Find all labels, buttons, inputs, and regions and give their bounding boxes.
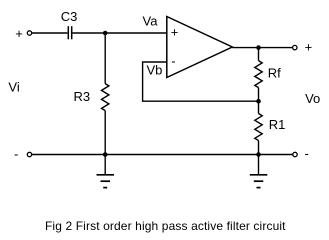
svg-text:R1: R1 <box>269 117 286 132</box>
op-amp U1 <box>167 17 233 78</box>
svg-text:Rf: Rf <box>268 66 281 81</box>
wire output <box>232 47 292 49</box>
svg-text:+: + <box>15 26 23 41</box>
wire top rail left of C3 <box>32 32 68 34</box>
svg-text:R3: R3 <box>74 89 91 104</box>
svg-text:-: - <box>171 53 175 68</box>
wire node to R1 <box>258 101 260 113</box>
wire R3 to bottom rail <box>104 111 106 155</box>
wire Rf to node Vb junction <box>258 88 260 102</box>
svg-text:+: + <box>305 40 313 55</box>
svg-text:Fig 2 First order high pass ac: Fig 2 First order high pass active filte… <box>45 219 286 233</box>
resistor R3 <box>102 84 109 111</box>
node output junction dot <box>256 45 261 50</box>
node bottom rail R3 junction dot <box>103 152 108 157</box>
wire minus input feedback <box>143 62 259 101</box>
node feedback junction dot <box>256 99 261 104</box>
svg-text:Va: Va <box>143 14 159 29</box>
terminal - left (open circle) <box>27 152 31 156</box>
svg-text:+: + <box>171 25 179 40</box>
svg-text:-: - <box>305 146 309 161</box>
wire R1 to bottom rail <box>258 141 260 155</box>
node bottom rail R1 junction dot <box>256 152 261 157</box>
svg-text:Vi: Vi <box>8 79 19 94</box>
wire output node down to Rf <box>258 48 260 61</box>
svg-text:Vo: Vo <box>305 91 320 106</box>
wire junction down to R3 <box>104 33 106 84</box>
svg-text:C3: C3 <box>61 9 78 24</box>
svg-text:Vb: Vb <box>147 63 163 78</box>
svg-text:-: - <box>14 146 18 161</box>
resistor Rf <box>255 61 262 88</box>
terminal + output (open circle) <box>293 45 297 49</box>
terminal + input (open circle) <box>27 31 31 35</box>
wire bottom rail <box>32 154 293 156</box>
node Va junction dot <box>103 31 108 36</box>
wire top rail C3 to op-amp <box>73 32 167 34</box>
capacitor C3 <box>68 26 71 39</box>
resistor R1 <box>255 114 262 141</box>
ground right <box>250 155 267 188</box>
ground left <box>97 155 115 188</box>
terminal - right (open circle) <box>293 152 297 156</box>
